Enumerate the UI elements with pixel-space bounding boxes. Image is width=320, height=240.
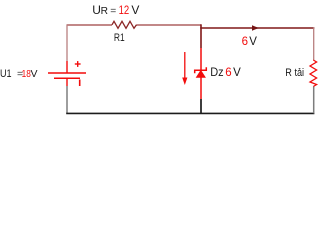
- battery minus mark: [79, 80, 81, 87]
- svg-text:Dz: Dz: [210, 67, 224, 79]
- svg-text:R: R: [101, 6, 108, 17]
- wire: left vertical upper (source top lead): [66, 24, 68, 61]
- svg-text:V: V: [31, 68, 38, 80]
- wire: left vertical lower (gray): [66, 86, 68, 113]
- label U1 = 18V: [0, 68, 38, 80]
- label UR = 12 V: [92, 3, 139, 17]
- svg-text:6: 6: [225, 67, 231, 79]
- svg-text:=: =: [110, 6, 116, 17]
- svg-text:6: 6: [242, 36, 248, 48]
- svg-text:R tải: R tải: [285, 67, 304, 79]
- battery U1 plates: [48, 73, 86, 78]
- wire: top-right horizontal (dark): [200, 27, 314, 29]
- label Dz 6 V: [210, 67, 241, 79]
- svg-text:V: V: [249, 36, 257, 48]
- svg-text:12: 12: [119, 5, 130, 17]
- svg-text:R1: R1: [114, 32, 125, 44]
- battery U1 top lead: [66, 61, 68, 73]
- svg-text:U1: U1: [0, 68, 12, 80]
- wire: bottom horizontal (black): [66, 112, 314, 114]
- resistor R1: [112, 21, 137, 28]
- resistor R tai (load): [310, 60, 317, 87]
- zener diode Dz upper lead: [200, 48, 202, 70]
- zener diode Dz cathode bar: [195, 67, 207, 73]
- wire: top-left horizontal from source to node A: [67, 24, 201, 26]
- zener diode Dz lower lead: [200, 77, 202, 99]
- zener diode Dz anode triangle: [196, 71, 205, 78]
- svg-text:V: V: [233, 67, 241, 79]
- wire: zener branch to bottom (black): [200, 99, 202, 113]
- wire: right vertical upper (rose): [313, 27, 315, 60]
- current arrow at Dz: [182, 52, 187, 85]
- svg-text:V: V: [131, 3, 139, 17]
- node A vertical stub (dark): [200, 24, 202, 48]
- label 6 V (top): [242, 36, 258, 48]
- wire: right vertical lower (gray): [313, 87, 315, 114]
- battery plus mark: [75, 61, 81, 67]
- battery U1 bottom lead: [66, 78, 68, 86]
- arrowhead on top-right wire: [252, 25, 259, 30]
